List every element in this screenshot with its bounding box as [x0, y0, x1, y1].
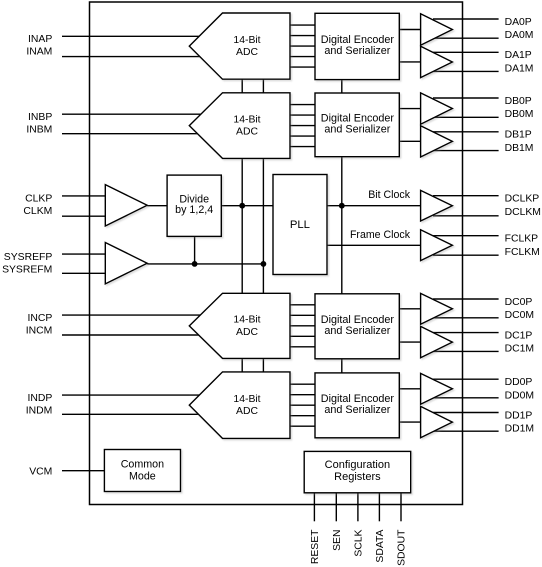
wire SEN pin [335, 493, 337, 522]
svg-text:INBM: INBM [26, 124, 52, 135]
wire ADC-A data bit 3 [289, 45, 316, 47]
output buffer DC0 [421, 293, 453, 324]
node SYSREF-bus junction [261, 261, 267, 267]
wire ADC-C data bit 1 [289, 304, 316, 306]
wire ADC-B data bit 1 [289, 104, 316, 106]
svg-text:and Serializer: and Serializer [324, 325, 390, 337]
wire INAM input [62, 56, 201, 58]
svg-text:INDP: INDP [27, 393, 52, 404]
output buffer DA1 [421, 46, 453, 77]
svg-text:INCP: INCP [27, 313, 52, 324]
svg-text:CLKM: CLKM [23, 206, 52, 217]
wire DA1M output [433, 70, 499, 72]
chip outline [90, 2, 463, 505]
wire DB0P output [433, 97, 499, 99]
svg-text:DB0P: DB0P [505, 96, 532, 107]
wire ADC-D data bit 2 [289, 394, 316, 396]
wire ADC-C data bit 3 [289, 325, 316, 327]
wire divider to PLL [221, 205, 275, 207]
svg-text:and Serializer: and Serializer [324, 404, 390, 416]
ADC channel B (14-Bit ADC) [189, 93, 290, 159]
svg-text:DCLKP: DCLKP [505, 194, 540, 205]
wire ADC clock bus 2 (SYSREF to ADCs) [262, 79, 264, 372]
svg-text:DD1M: DD1M [505, 424, 534, 435]
wire INDP input [62, 394, 201, 396]
wire ADC-A data bit 4 [289, 56, 316, 58]
wire SYSREF buffer output [147, 263, 263, 265]
svg-text:by 1,2,4: by 1,2,4 [175, 204, 213, 216]
svg-text:Configuration: Configuration [325, 459, 390, 471]
wire SDOUT pin [400, 493, 402, 522]
wire DB1M output [433, 150, 499, 152]
wire ADC-A data bit 1 [289, 24, 316, 26]
wire DD0P output [433, 378, 499, 380]
wire encoder-D to buffer 1 [399, 421, 420, 423]
svg-text:DC1P: DC1P [505, 330, 533, 341]
svg-text:RESET: RESET [310, 529, 321, 564]
wire ADC-A data bit 2 [289, 35, 316, 37]
wire encoder-C to buffer 1 [399, 341, 420, 343]
wire CLKM input [62, 215, 106, 217]
svg-text:ADC: ADC [236, 127, 258, 138]
svg-text:FCLKM: FCLKM [505, 247, 540, 258]
svg-text:DB1M: DB1M [505, 143, 534, 154]
svg-text:and Serializer: and Serializer [324, 123, 390, 135]
wire FCLKM output [433, 254, 499, 256]
wire bit-clock bus to serializers [341, 80, 343, 373]
wire ADC-D data bit 4 [289, 415, 316, 417]
wire INBM input [62, 133, 201, 135]
output buffer DD0 [421, 373, 453, 404]
digital encoder and serializer D [315, 373, 399, 438]
svg-text:Mode: Mode [129, 470, 156, 482]
wire ADC-B data bit 5 [289, 146, 316, 148]
wire DCLKP output [433, 195, 499, 197]
svg-text:SDOUT: SDOUT [397, 529, 408, 566]
output buffer DB1 [421, 126, 453, 157]
svg-text:PLL: PLL [290, 219, 310, 231]
wire DC0P output [433, 298, 499, 300]
wire VCM input [62, 470, 106, 472]
wire divider SYSREF stub [194, 236, 196, 264]
node divided-clock junction [239, 203, 245, 209]
wire INAP input [62, 35, 201, 37]
svg-text:ADC: ADC [236, 47, 258, 58]
wire ADC-C data bit 4 [289, 335, 316, 337]
wire ADC-B data bit 4 [289, 135, 316, 137]
wire DCLKM output [433, 215, 499, 217]
configuration registers block [304, 451, 411, 492]
svg-text:DD0M: DD0M [505, 390, 534, 401]
svg-text:DA0P: DA0P [505, 17, 532, 28]
bit clock output buffer [421, 190, 453, 221]
ADC channel D (14-Bit ADC) [189, 372, 290, 439]
frame clock output buffer [421, 230, 453, 261]
wire encoder-C to buffer 0 [399, 308, 420, 310]
wire INCP input [62, 314, 201, 316]
output buffer DC1 [421, 326, 453, 357]
wire DD1M output [433, 430, 499, 432]
svg-text:DD1P: DD1P [505, 410, 533, 421]
svg-text:Frame Clock: Frame Clock [350, 229, 411, 241]
wire RESET pin [313, 493, 315, 522]
digital encoder and serializer C [315, 294, 399, 359]
output buffer DB0 [421, 93, 453, 124]
svg-text:DA0M: DA0M [505, 30, 534, 41]
wire DC1M output [433, 350, 499, 352]
common mode block [104, 450, 180, 492]
wire ADC-D data bit 5 [289, 425, 316, 427]
svg-text:INBP: INBP [28, 112, 52, 123]
wire SDATA pin [378, 493, 380, 522]
wire ADC-A data bit 5 [289, 66, 316, 68]
digital encoder and serializer B [315, 93, 399, 157]
svg-text:SEN: SEN [332, 530, 343, 551]
wire encoder-B to buffer 0 [399, 108, 420, 110]
wire encoder-A to buffer 1 [399, 61, 420, 63]
svg-text:14-Bit: 14-Bit [233, 394, 260, 405]
wire DB0M output [433, 116, 499, 118]
svg-text:14-Bit: 14-Bit [233, 315, 260, 326]
wire DA1P output [433, 51, 499, 53]
wire SYSREFP input [62, 253, 106, 255]
svg-text:INAP: INAP [28, 34, 52, 45]
wire encoder-D to buffer 0 [399, 388, 420, 390]
svg-text:DA1P: DA1P [505, 50, 532, 61]
divider (Divide by 1,2,4) [167, 175, 221, 236]
digital encoder and serializer A [315, 13, 399, 79]
PLL [273, 175, 327, 275]
wire ADC-D data bit 3 [289, 404, 316, 406]
svg-text:Registers: Registers [334, 471, 381, 483]
svg-text:DA1M: DA1M [505, 63, 534, 74]
svg-text:14-Bit: 14-Bit [233, 114, 260, 125]
wire INDM input [62, 413, 201, 415]
svg-text:14-Bit: 14-Bit [233, 35, 260, 46]
svg-text:SDATA: SDATA [375, 529, 386, 562]
wire SYSREFM input [62, 272, 106, 274]
svg-text:ADC: ADC [236, 327, 258, 338]
svg-text:DB1P: DB1P [505, 130, 532, 141]
svg-text:DC0P: DC0P [505, 297, 533, 308]
wire CLK buffer to divider [147, 205, 168, 207]
svg-text:ADC: ADC [236, 406, 258, 417]
svg-text:DC1M: DC1M [505, 344, 534, 355]
SYSREF input buffer [105, 243, 147, 284]
svg-text:DCLKM: DCLKM [505, 207, 541, 218]
ADC channel A (14-Bit ADC) [189, 13, 290, 79]
clock input buffer [105, 185, 147, 226]
wire ADC-C data bit 5 [289, 346, 316, 348]
svg-text:SYSREFP: SYSREFP [4, 252, 53, 263]
wire DA0P output [433, 18, 499, 20]
svg-text:Bit Clock: Bit Clock [368, 189, 410, 201]
output buffer DD1 [421, 406, 453, 437]
ADC channel C (14-Bit ADC) [189, 293, 290, 358]
output buffer DA0 [421, 14, 453, 45]
wire INBP input [62, 113, 201, 115]
svg-text:DB0M: DB0M [505, 109, 534, 120]
wire FCLKP output [433, 235, 499, 237]
node SYSREF-divider junction [192, 261, 198, 267]
svg-text:DC0M: DC0M [505, 310, 534, 321]
svg-text:FCLKP: FCLKP [505, 234, 539, 245]
wire ADC-D data bit 1 [289, 383, 316, 385]
wire CLKP input [62, 195, 106, 197]
svg-text:and Serializer: and Serializer [324, 45, 390, 57]
wire DC0M output [433, 317, 499, 319]
wire DB1P output [433, 131, 499, 133]
wire DC1P output [433, 332, 499, 334]
wire PLL frame clock output [326, 244, 421, 246]
wire ADC-C data bit 2 [289, 314, 316, 316]
wire ADC-B data bit 2 [289, 114, 316, 116]
wire DD0M output [433, 397, 499, 399]
wire encoder-A to buffer 0 [399, 29, 420, 31]
node bit-clock junction [339, 203, 345, 209]
svg-text:CLKP: CLKP [25, 194, 52, 205]
wire PLL bit clock output [326, 205, 421, 207]
wire SCLK pin [357, 493, 359, 522]
svg-text:INCM: INCM [26, 325, 53, 336]
svg-text:INAM: INAM [26, 46, 52, 57]
wire encoder-B to buffer 1 [399, 140, 420, 142]
svg-text:Common: Common [121, 458, 164, 470]
wire ADC-B data bit 3 [289, 125, 316, 127]
svg-text:VCM: VCM [29, 467, 52, 478]
wire DA0M output [433, 37, 499, 39]
svg-text:SYSREFM: SYSREFM [2, 264, 52, 275]
wire DD1P output [433, 412, 499, 414]
svg-text:INDM: INDM [26, 405, 53, 416]
wire ADC clock bus 1 (divided clock to ADCs) [241, 79, 243, 372]
wire INCM input [62, 334, 201, 336]
svg-text:SCLK: SCLK [354, 529, 365, 556]
svg-text:DD0P: DD0P [505, 377, 533, 388]
